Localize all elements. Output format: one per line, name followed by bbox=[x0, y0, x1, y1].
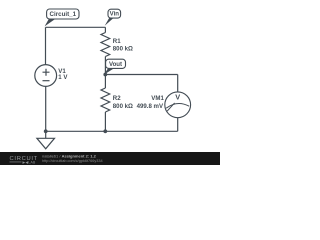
wire left vertical (top) bbox=[45, 27, 47, 64]
resistor R2 zigzag bbox=[101, 88, 110, 112]
V1 plus sign bbox=[43, 69, 50, 76]
svg-text:Vout: Vout bbox=[109, 61, 122, 68]
node junction dot (R2 bottom) bbox=[103, 129, 107, 133]
svg-text:1 V: 1 V bbox=[58, 74, 68, 81]
voltmeter VM1 needle bbox=[167, 103, 175, 111]
node junction dot (ground node) bbox=[44, 129, 48, 133]
wire left vertical (below V1) bbox=[45, 86, 47, 131]
svg-text:VM1: VM1 bbox=[151, 95, 164, 102]
flag tail Vout bbox=[104, 68, 115, 75]
resistor R1 top stub bbox=[104, 27, 106, 32]
voltage source V1 circle bbox=[35, 65, 57, 87]
ground symbol triangle bbox=[37, 138, 55, 149]
flag tail Vin bbox=[105, 18, 114, 26]
V1 minus sign bbox=[43, 80, 50, 82]
wire voltmeter vertical top bbox=[177, 75, 179, 93]
resistor R2 bottom stub bbox=[104, 112, 106, 131]
wire voltmeter vertical bottom bbox=[177, 118, 179, 132]
svg-text:R2: R2 bbox=[113, 95, 121, 102]
voltmeter VM1 scale arc bbox=[166, 103, 189, 108]
svg-text:Circuit_1: Circuit_1 bbox=[50, 11, 77, 18]
svg-text:R1: R1 bbox=[113, 38, 121, 45]
wire ground stub bbox=[45, 131, 47, 138]
resistor R1 zigzag bbox=[101, 33, 110, 57]
resistor R2 top stub bbox=[104, 75, 106, 89]
svg-text:▶◀LAB: ▶◀LAB bbox=[23, 161, 37, 165]
flag box Vout bbox=[106, 59, 126, 68]
resistor R1 bottom stub bbox=[104, 57, 106, 75]
flag box Circuit_1 bbox=[47, 9, 79, 19]
voltmeter VM1 circle bbox=[165, 92, 191, 118]
svg-text:800 kΩ: 800 kΩ bbox=[113, 103, 133, 110]
svg-text:V: V bbox=[175, 93, 180, 102]
wire top horizontal bbox=[46, 26, 106, 28]
watermark bar bbox=[0, 152, 220, 165]
svg-text:natalie61 / Assignment 2: 1.2: natalie61 / Assignment 2: 1.2 bbox=[42, 154, 97, 159]
node junction dot (Vout) bbox=[103, 73, 107, 77]
svg-text:499.8 mV: 499.8 mV bbox=[137, 103, 164, 110]
wire Vout horizontal bbox=[105, 74, 177, 76]
svg-text:http://circuitlab.com/c/gpk6t7: http://circuitlab.com/c/gpk6t766y334 bbox=[42, 159, 103, 163]
logo dash bbox=[10, 161, 22, 164]
flag box Vin bbox=[108, 9, 121, 18]
svg-text:800 kΩ: 800 kΩ bbox=[113, 45, 133, 52]
flag tail Circuit_1 bbox=[45, 19, 56, 26]
wire bottom horizontal bbox=[46, 130, 178, 132]
svg-text:Vin: Vin bbox=[110, 11, 120, 18]
